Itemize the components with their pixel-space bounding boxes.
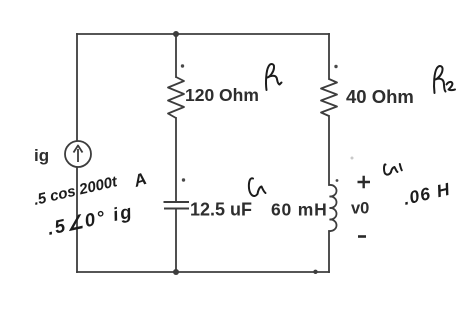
wire middle bottom	[175, 210, 177, 272]
wire left upper	[76, 34, 78, 141]
handwritten A	[130, 169, 149, 191]
svg-text:40 Ohm: 40 Ohm	[346, 86, 414, 107]
minus sign	[358, 235, 366, 238]
svg-text:v0: v0	[351, 200, 369, 218]
plus sign	[358, 176, 371, 189]
wire top	[77, 33, 329, 35]
current source ig	[65, 141, 91, 167]
handwritten .5 angle 0 ig	[45, 200, 135, 239]
stray dot near R2	[334, 65, 337, 68]
faint speck left of plus	[351, 157, 354, 160]
handwritten .06 H	[401, 179, 452, 209]
wire bottom	[77, 271, 329, 273]
svg-text:60 mH: 60 mH	[271, 200, 328, 220]
wire middle top	[175, 34, 177, 77]
junction dot top	[173, 31, 179, 37]
capacitor 12.5 uF	[164, 202, 190, 209]
wire right bottom	[328, 231, 330, 272]
junction dot bottom	[173, 269, 179, 275]
svg-text:.06 H: .06 H	[401, 179, 452, 209]
wire right mid	[328, 116, 330, 185]
svg-text:12.5 uF: 12.5 uF	[190, 200, 252, 220]
wire middle mid	[175, 118, 177, 201]
handwritten R2	[434, 66, 455, 93]
svg-text:.5 cos 2000t: .5 cos 2000t	[32, 173, 120, 209]
wire right top	[328, 34, 330, 79]
svg-text:ig: ig	[34, 146, 49, 165]
stray dot near R1	[181, 64, 184, 67]
small bump on bottom wire	[313, 270, 317, 274]
handwritten L1 right of plus	[384, 164, 402, 175]
wire left lower	[76, 167, 78, 272]
svg-text:120 Ohm: 120 Ohm	[185, 85, 259, 105]
handwritten .5 cos 2000t A	[32, 173, 120, 209]
stray dot above capacitor	[182, 178, 185, 181]
svg-text:.5∠0° ig: .5∠0° ig	[45, 200, 135, 239]
svg-text:A: A	[130, 169, 149, 191]
resistor R1 120 Ohm zigzag	[168, 77, 184, 118]
handwritten R1	[266, 64, 281, 90]
handwritten L1 near 60 mH	[249, 178, 266, 196]
resistor R2 40 Ohm zigzag	[321, 79, 337, 116]
stray dot above inductor	[336, 179, 339, 182]
inductor 60 mH coil	[330, 185, 337, 231]
